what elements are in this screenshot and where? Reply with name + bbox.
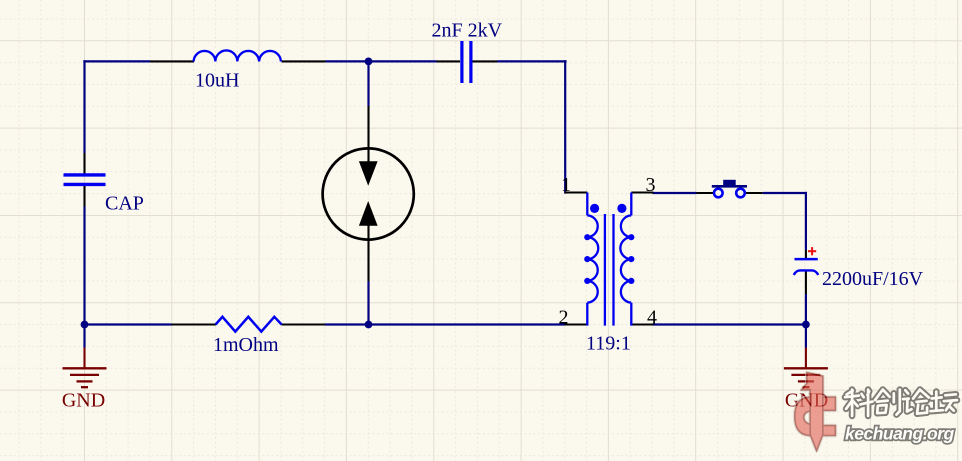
svg-text:10uH: 10uH [195, 69, 239, 91]
transformer T1 polarity dot secondary [617, 204, 626, 213]
spark gap pins [367, 106, 369, 162]
junction bottom-middle (spark gap/rail) [365, 321, 373, 329]
inductor L1 pins [150, 60, 194, 62]
wire top horizontal inductor to C1 [326, 60, 437, 62]
capacitor C2 plus sign [808, 250, 816, 252]
svg-text:CAP: CAP [105, 193, 144, 215]
wire top horizontal C1 to right corner [497, 60, 567, 62]
wire C2 to bottom junction [805, 294, 807, 325]
svg-text:4: 4 [647, 307, 657, 329]
wire vertical down to transformer pin 1 [564, 60, 566, 193]
watermark text kechuang (science innovation forum hanzi) [845, 390, 957, 416]
wire bottom rail left (junction to resistor R1) [85, 323, 172, 325]
inductor L1 coil 10uH [194, 50, 281, 61]
watermark logo (kechuang emblem) [795, 373, 836, 451]
wire pin 4 to right junction [653, 323, 806, 325]
capacitor C1 pins [437, 60, 461, 62]
transformer T1 primary winding [587, 193, 598, 326]
wire right vertical down to C2 [805, 192, 807, 250]
spark gap circle [323, 148, 414, 239]
capacitor C2 pins [805, 250, 807, 259]
transformer T1 secondary winding [620, 193, 631, 326]
switch S1 actuator bar [712, 185, 747, 188]
transformer T1 polarity dot primary [590, 204, 599, 213]
transformer T1 pin 2 [565, 323, 588, 325]
capacitor C2 curved plate [794, 270, 818, 275]
wire stub right GND [805, 325, 807, 348]
svg-text:2nF 2kV: 2nF 2kV [432, 20, 503, 42]
wire bottom rail middle (resistor to transformer pin 2) [325, 323, 566, 325]
wire spark-gap lower branch [367, 281, 369, 325]
capacitor C2 top plate [795, 258, 818, 261]
resistor R1 zigzag [216, 317, 282, 332]
transformer T1 pin 4 [631, 323, 653, 325]
transformer T1 winding cusp dots [584, 234, 590, 240]
ground symbol at x=805.9 [805, 348, 807, 369]
spark gap bottom electrode triangle [359, 201, 378, 226]
wire spark-gap upper branch [367, 61, 369, 106]
wire left vertical rail (top, above CAP) [83, 60, 85, 153]
svg-text:GND: GND [62, 389, 105, 411]
switch S1 contact circles [714, 189, 723, 198]
capacitor C1 plates [460, 41, 463, 83]
ground symbol at x=84.5 [83, 348, 85, 369]
junction bottom-left (CAP/R1/GND) [81, 321, 89, 329]
watermark text kechuang.org [845, 424, 955, 444]
transformer T1 pin 1 [565, 191, 588, 193]
capacitor CAP pins [83, 153, 85, 174]
wire top-left horizontal from left rail to inductor L1 [83, 60, 150, 62]
svg-text:2200uF/16V: 2200uF/16V [822, 268, 924, 290]
junction bottom-right (C2/pin4/GND) [802, 321, 810, 329]
switch S1 button [723, 180, 736, 186]
transformer T1 pin 3 [631, 191, 653, 193]
switch S1 pins [697, 192, 714, 194]
junction top (L1/C1/spark gap) [365, 58, 373, 66]
svg-text:1mOhm: 1mOhm [213, 334, 279, 356]
resistor R1 pins [172, 323, 217, 325]
svg-text:3: 3 [646, 174, 656, 196]
svg-text:119:1: 119:1 [586, 332, 631, 354]
spark gap top electrode triangle [359, 161, 378, 186]
wire stub left GND [83, 325, 85, 348]
svg-text:1: 1 [561, 174, 571, 196]
svg-text:kechuang.org: kechuang.org [845, 424, 955, 444]
svg-text:2: 2 [559, 307, 569, 329]
transformer T1 core lines [604, 214, 606, 326]
wire switch to right corner [763, 192, 807, 194]
capacitor CAP plates [64, 173, 106, 176]
wire left vertical rail (below CAP to bottom rail) [83, 207, 85, 326]
wire pin 3 to switch S1 [653, 192, 697, 194]
